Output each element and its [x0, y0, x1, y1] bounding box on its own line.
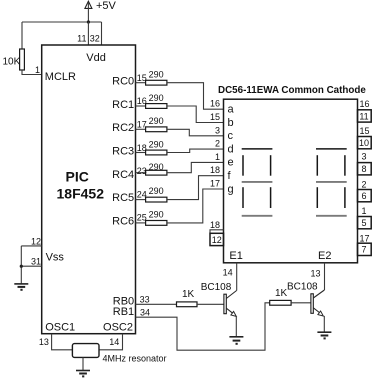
svg-text:11: 11	[77, 34, 86, 44]
svg-text:290: 290	[149, 70, 164, 80]
svg-text:OSC2: OSC2	[103, 322, 133, 334]
svg-text:8: 8	[361, 164, 366, 174]
wire RC6 to display g	[167, 189, 224, 223]
wire OSC1 pin 13	[52, 334, 123, 350]
display DS1 DC56-11EWA	[218, 85, 366, 263]
svg-text:d: d	[228, 143, 234, 155]
svg-text:290: 290	[149, 93, 164, 103]
resistor R6 290	[146, 162, 167, 175]
wire Vss pin 12	[21, 245, 41, 247]
wire Vss pin 31	[21, 265, 41, 267]
resistor R2 290	[146, 70, 167, 86]
pin box 11	[358, 110, 372, 122]
svg-text:18: 18	[137, 143, 147, 153]
wire Vss down	[20, 246, 22, 284]
wire R10 to Q2 base	[291, 302, 311, 304]
svg-text:OSC1: OSC1	[45, 322, 75, 334]
resistor R9 1K	[177, 289, 198, 307]
wire RC3 to display d	[167, 149, 224, 152]
wire RC4 stub	[136, 172, 146, 174]
wire RC2 to display c	[167, 129, 224, 136]
svg-text:34: 34	[140, 308, 150, 318]
svg-text:+5V: +5V	[96, 0, 117, 12]
op-amp U1 PIC 18F452 box	[42, 45, 136, 334]
svg-text:10: 10	[359, 138, 369, 148]
svg-text:2: 2	[215, 139, 220, 149]
wire RC1 to display b	[167, 106, 224, 123]
resistor R10 1K	[270, 288, 291, 305]
wire RC3 stub	[136, 152, 146, 154]
wire RC5 to display f	[167, 176, 224, 200]
svg-text:1K: 1K	[182, 289, 195, 300]
svg-text:18F452: 18F452	[57, 186, 105, 202]
resistor R5 290	[146, 139, 167, 155]
svg-text:24: 24	[137, 189, 147, 199]
svg-text:1: 1	[35, 65, 40, 75]
ground for Vss	[14, 284, 28, 290]
svg-text:1: 1	[361, 206, 366, 216]
wire RC1 stub	[136, 105, 146, 107]
pin box 12	[210, 233, 224, 245]
wire E2 pin 13	[310, 263, 324, 290]
svg-text:15: 15	[359, 126, 369, 136]
seven segment digit 2	[316, 149, 347, 216]
svg-text:14: 14	[109, 337, 119, 347]
svg-text:5: 5	[361, 218, 366, 228]
+5V power symbol	[85, 0, 117, 22]
svg-text:PIC: PIC	[66, 169, 89, 185]
svg-text:RC0: RC0	[112, 76, 134, 88]
svg-text:16: 16	[210, 99, 220, 109]
svg-text:6: 6	[361, 191, 366, 201]
svg-text:a: a	[228, 104, 235, 116]
svg-text:BC108: BC108	[201, 282, 232, 293]
wire Vdd pin 32	[101, 22, 103, 45]
wire pin 18 stub lower	[210, 220, 224, 233]
wire MCLR	[22, 70, 42, 75]
svg-text:13: 13	[39, 337, 49, 347]
svg-text:b: b	[228, 117, 234, 129]
wire RC4 to display e	[167, 162, 224, 172]
ground for resonator	[76, 371, 90, 377]
svg-text:RB1: RB1	[113, 306, 134, 318]
svg-text:RC5: RC5	[112, 192, 134, 204]
svg-text:g: g	[228, 183, 234, 195]
crystal X1 4MHz resonator	[72, 344, 166, 364]
svg-text:RC4: RC4	[112, 169, 134, 181]
node junction dot	[87, 20, 90, 23]
resistor R8 290	[146, 209, 167, 225]
wire RC6 stub	[136, 222, 146, 224]
svg-text:Vss: Vss	[46, 251, 65, 263]
svg-text:7: 7	[361, 245, 366, 255]
ground for Q1	[229, 337, 243, 344]
wire R9 to Q1 base	[197, 303, 224, 305]
resistor R7 290	[146, 186, 167, 202]
svg-text:31: 31	[31, 257, 41, 267]
wire RC2 stub	[136, 128, 146, 130]
svg-text:290: 290	[149, 116, 164, 126]
wire Vdd pin 11	[87, 22, 89, 45]
pin box 10	[358, 137, 372, 149]
svg-text:DC56-11EWA Common Cathode: DC56-11EWA Common Cathode	[218, 85, 366, 96]
wire E1 pin 14	[223, 263, 237, 291]
svg-text:290: 290	[149, 139, 164, 149]
svg-text:25: 25	[137, 213, 147, 223]
ground for Q2	[317, 332, 331, 338]
svg-text:12: 12	[212, 235, 222, 245]
wire RC5 stub	[136, 199, 146, 201]
svg-text:E2: E2	[318, 250, 331, 262]
svg-text:RC3: RC3	[112, 146, 134, 158]
svg-text:12: 12	[31, 237, 41, 247]
svg-text:18: 18	[210, 220, 220, 230]
svg-text:3: 3	[361, 152, 366, 162]
svg-text:290: 290	[149, 162, 164, 172]
wire RC0 to display a	[167, 83, 224, 110]
svg-text:16: 16	[137, 96, 147, 106]
svg-text:17: 17	[210, 179, 220, 189]
svg-text:4MHz resonator: 4MHz resonator	[103, 354, 167, 364]
svg-text:10K: 10K	[3, 57, 21, 68]
wire RC0 stub	[136, 82, 146, 84]
svg-text:23: 23	[137, 166, 147, 176]
transistor Q1 BC108	[201, 282, 237, 337]
wire RB1 to Q2 base resistor	[136, 303, 270, 350]
svg-text:16: 16	[359, 99, 369, 109]
svg-text:15: 15	[137, 73, 147, 83]
resistor R4 290	[146, 116, 167, 132]
svg-text:E1: E1	[229, 250, 242, 262]
svg-text:RC1: RC1	[112, 99, 134, 111]
svg-text:32: 32	[90, 34, 100, 44]
transistor Q2 BC108	[287, 281, 324, 332]
svg-text:1: 1	[215, 152, 220, 162]
svg-text:2: 2	[361, 179, 366, 189]
svg-text:18: 18	[210, 165, 220, 175]
svg-text:290: 290	[149, 186, 164, 196]
svg-text:MCLR: MCLR	[45, 71, 76, 83]
wire RB0 stub	[136, 303, 177, 305]
svg-text:1K: 1K	[275, 288, 288, 299]
pin box 7	[358, 243, 372, 255]
svg-text:RC2: RC2	[112, 122, 134, 134]
svg-text:17: 17	[359, 234, 369, 244]
svg-text:f: f	[228, 170, 232, 182]
resistor R3 290	[146, 93, 167, 109]
wire resonator to ground	[82, 357, 84, 370]
svg-text:17: 17	[137, 120, 147, 130]
node junction dot	[20, 265, 23, 268]
svg-text:RC6: RC6	[112, 216, 134, 228]
svg-text:11: 11	[359, 111, 368, 121]
svg-text:290: 290	[149, 209, 164, 219]
svg-text:15: 15	[210, 112, 220, 122]
wire +5V rail horizontal	[22, 21, 102, 23]
svg-text:BC108: BC108	[287, 281, 318, 292]
pin box 5	[358, 217, 372, 229]
wire to 10K resistor	[21, 22, 23, 49]
svg-text:14: 14	[223, 268, 233, 278]
svg-text:e: e	[228, 157, 234, 169]
svg-text:33: 33	[140, 295, 150, 305]
svg-text:13: 13	[310, 269, 320, 279]
pin box 8	[358, 163, 372, 175]
resistor R1 10K	[3, 49, 25, 70]
svg-text:Vdd: Vdd	[86, 52, 106, 64]
svg-text:c: c	[228, 130, 234, 142]
seven segment digit 1	[242, 149, 273, 216]
pin box 6	[358, 190, 372, 202]
svg-text:3: 3	[215, 125, 220, 135]
